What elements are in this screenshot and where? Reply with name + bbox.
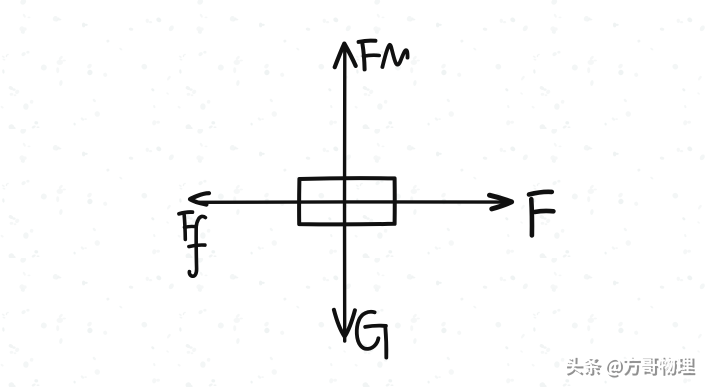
label G	[357, 312, 387, 358]
wire: vertical axis line (FN/G axis)	[343, 46, 347, 341]
block: rectangle	[299, 178, 395, 224]
arrowhead up (FN arrow tip)	[335, 44, 356, 68]
label F (right)	[529, 192, 553, 236]
wire: horizontal axis line (Ff/F axis)	[196, 200, 509, 204]
watermark 头条@方哥物理 (embossed)	[565, 356, 695, 378]
arrowhead left (Ff arrow tip)	[190, 193, 209, 204]
label FN	[359, 41, 408, 70]
arrowhead right (F arrow tip)	[490, 195, 512, 209]
label Ff (left)	[179, 212, 205, 276]
arrowhead down (G arrow tip)	[334, 310, 355, 337]
